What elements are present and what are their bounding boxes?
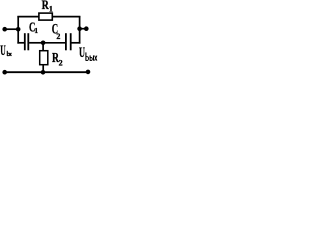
- node center junction: [41, 41, 46, 46]
- wire R2 to bottom rail: [42, 65, 44, 73]
- resistor R2: [40, 51, 48, 65]
- capacitor C2: [66, 33, 71, 50]
- svg-text:2: 2: [56, 32, 60, 41]
- capacitor C1: [25, 33, 29, 50]
- svg-text:R: R: [42, 0, 49, 12]
- node junction right: [77, 26, 82, 31]
- wire C1 to node: [29, 42, 43, 44]
- resistor R1: [39, 13, 52, 20]
- wire node to C2: [43, 42, 65, 44]
- wire C2 to right riser: [72, 42, 81, 44]
- svg-text:U: U: [79, 45, 85, 61]
- wire input top: [5, 28, 19, 30]
- wire node down to R2: [42, 43, 44, 51]
- wire to C1: [17, 42, 24, 44]
- input terminal bottom (left): [2, 70, 7, 75]
- wire top right: [52, 16, 80, 18]
- wire output top: [80, 28, 87, 30]
- node junction left: [16, 27, 21, 32]
- svg-text:1: 1: [34, 26, 38, 35]
- svg-text:1: 1: [49, 4, 53, 13]
- bottom rail wire: [5, 71, 89, 73]
- wire right riser: [79, 16, 81, 44]
- output terminal top (right): [84, 26, 89, 31]
- output terminal bottom (right): [86, 70, 91, 75]
- svg-text:2: 2: [59, 59, 63, 68]
- node bottom junction: [41, 70, 46, 75]
- wire left riser: [17, 16, 19, 44]
- background: [0, 0, 100, 80]
- wire top left: [17, 16, 39, 18]
- input terminal top (left): [2, 27, 7, 32]
- svg-text:U: U: [0, 43, 6, 59]
